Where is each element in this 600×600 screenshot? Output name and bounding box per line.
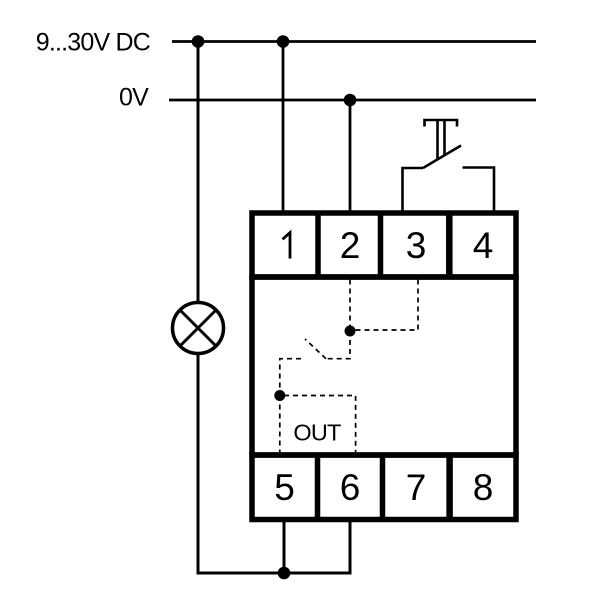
pushbutton S1 actuator stem right [443, 120, 446, 156]
relay contact blade (open) [305, 339, 326, 359]
svg-text:4: 4 [473, 225, 494, 266]
svg-text:9...30V DC: 9...30V DC [36, 29, 151, 57]
dashed wire output node to terminal 6 [284, 396, 356, 453]
wire +V to terminal 1 [282, 42, 285, 214]
terminal divider 2|3 [378, 213, 384, 277]
junction dot on +V rail at lamp branch [192, 35, 205, 48]
terminal divider 6|7 [380, 455, 386, 520]
svg-text:6: 6 [340, 467, 361, 508]
junction dot relay common [345, 326, 356, 337]
wire lamp branch lower and bottom return to terminal 6 [198, 353, 350, 573]
dashed wire terminal 3 down and left [355, 280, 418, 331]
terminal divider 5|6 [315, 455, 321, 520]
relay body outline [252, 277, 516, 455]
wire 0V to terminal 2 [349, 100, 352, 213]
terminal divider 1|2 [315, 213, 321, 277]
junction dot on 0V rail at terminal 2 branch [344, 94, 357, 107]
svg-text:8: 8 [473, 467, 494, 508]
pushbutton S1 actuator stem left [436, 120, 439, 160]
wire 0V rail [169, 99, 536, 102]
wire +V rail [172, 40, 536, 43]
svg-text:7: 7 [406, 467, 427, 508]
dashed wire common down to contact [326, 331, 350, 359]
terminal divider 7|8 [446, 455, 453, 520]
svg-text:2: 2 [340, 225, 361, 266]
pushbutton S1 actuator T-bar [425, 120, 458, 127]
dashed wire contact to output node [280, 359, 301, 396]
junction dot output node [274, 390, 285, 401]
pushbutton S1 blade [423, 146, 461, 169]
lamp L1 [173, 303, 224, 354]
pushbutton S1 left lead to terminal 3 [403, 168, 424, 213]
terminal 1 label [283, 233, 291, 259]
terminal strip bottom row outline [252, 455, 516, 520]
svg-text:0V: 0V [119, 84, 149, 112]
junction dot bottom return at terminal 5 [278, 567, 291, 580]
terminal divider 3|4 [446, 213, 453, 277]
svg-text:OUT: OUT [293, 420, 341, 446]
dashed wire terminal 2 to common contact [349, 280, 351, 332]
pushbutton S1 right lead to terminal 4 [463, 168, 495, 214]
wire terminal 5 to bottom return [283, 519, 286, 573]
dashed wire output node to terminal 5 [279, 396, 281, 453]
terminal strip top row outline [252, 213, 516, 277]
lamp cross stroke 1 [180, 310, 216, 346]
wire lamp branch upper [197, 42, 200, 304]
lamp cross stroke 2 [180, 310, 216, 346]
svg-text:5: 5 [274, 467, 295, 508]
junction dot on +V rail at terminal 1 branch [277, 35, 290, 48]
svg-text:3: 3 [406, 225, 427, 266]
